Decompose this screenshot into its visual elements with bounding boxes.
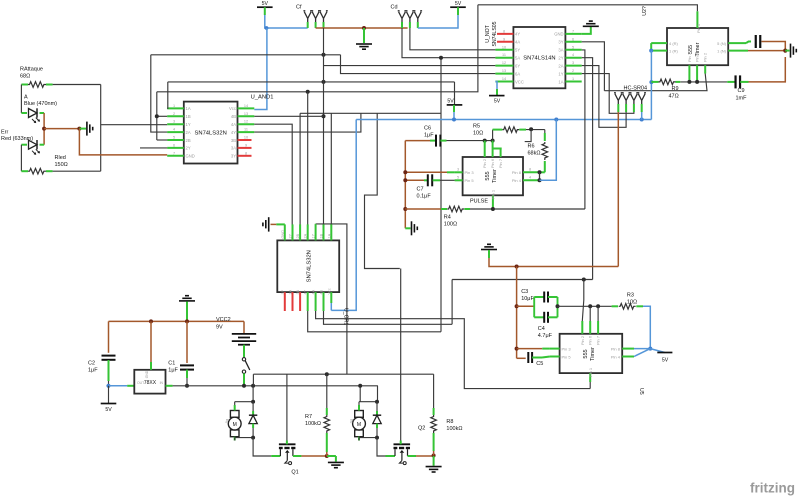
wire mesh H82 to 5V xyxy=(168,81,455,83)
wire OR p7 bottom blue xyxy=(330,303,332,310)
svg-text:68Ω: 68Ω xyxy=(20,74,30,80)
U_OR1 top pin 2Y xyxy=(292,224,294,240)
junction brown pin3 xyxy=(403,170,407,174)
SN74LS14N pin 4A xyxy=(497,41,513,43)
power +5V P5 xyxy=(657,352,672,354)
wire 4B row xyxy=(254,115,323,117)
wire motor2 net drop xyxy=(359,386,361,402)
wire Cf2 to ground rail (brown) xyxy=(316,27,408,29)
U_AND1 pin 9 3A xyxy=(238,147,252,149)
wire 1B/2B vertical xyxy=(156,92,158,140)
svg-text:C5: C5 xyxy=(536,361,543,367)
wire 5V P4 drop xyxy=(454,82,456,105)
svg-text:U_NOT: U_NOT xyxy=(485,24,491,42)
svg-text:5 (N): 5 (N) xyxy=(717,41,727,46)
wire brown to C3/C4 node xyxy=(517,305,535,307)
svg-text:2A: 2A xyxy=(558,63,563,68)
svg-text:10μF: 10μF xyxy=(521,296,534,302)
svg-text:C1: C1 xyxy=(168,361,175,367)
U2 pin1 top xyxy=(696,11,698,28)
wire 1A input xyxy=(166,82,169,109)
U_OR1 bottom pin 3Y xyxy=(284,292,286,311)
svg-text:Pin 1: Pin 1 xyxy=(588,367,593,377)
PULSE bottom pin xyxy=(492,195,494,209)
timer U2 555 xyxy=(667,28,728,65)
svg-text:4.7μF: 4.7μF xyxy=(538,333,553,339)
SN74LS14N pin 1Y xyxy=(565,73,581,75)
svg-text:Pin 2: Pin 2 xyxy=(703,52,708,62)
svg-text:555: 555 xyxy=(583,349,589,358)
svg-text:Pin 3: Pin 3 xyxy=(562,347,572,352)
svg-text:9: 9 xyxy=(503,37,505,41)
svg-text:4Y: 4Y xyxy=(231,130,236,135)
wire 5Y from Cd2 xyxy=(410,28,496,50)
svg-text:10Ω: 10Ω xyxy=(473,131,483,137)
svg-text:10Ω: 10Ω xyxy=(627,300,637,306)
svg-text:Q2: Q2 xyxy=(418,426,425,432)
svg-text:1mF: 1mF xyxy=(736,96,748,102)
svg-text:3: 3 xyxy=(572,61,574,65)
svg-text:Err: Err xyxy=(1,129,9,135)
wire 78xx IN to rail xyxy=(166,385,173,387)
svg-text:13: 13 xyxy=(502,69,506,73)
wire Rled right xyxy=(53,170,101,172)
U_AND1 pin 4 2A xyxy=(167,131,184,133)
wire to Q1 gate xyxy=(253,438,271,456)
transistor Q1 xyxy=(279,443,296,445)
power +5V P4 xyxy=(447,104,463,106)
svg-text:3Y: 3Y xyxy=(281,289,285,294)
svg-text:150Ω: 150Ω xyxy=(55,162,68,168)
junction R8 bottom xyxy=(432,454,436,458)
svg-text:1Y: 1Y xyxy=(312,233,316,238)
svg-text:13: 13 xyxy=(244,112,248,116)
wire blue down to R9/blue rail xyxy=(650,51,652,120)
wire C2 to out node xyxy=(108,363,110,381)
wire pin6 riser xyxy=(492,130,494,141)
junction blue U2 xyxy=(649,49,653,53)
U_AND1 pin 13 4B xyxy=(238,115,255,117)
U_OR1 top pin 1A xyxy=(330,224,332,240)
svg-text:6A: 6A xyxy=(515,71,520,76)
svg-text:9g: 9g xyxy=(224,419,229,423)
wire LED Err anode xyxy=(20,145,22,172)
U_OR1 top pin 1B xyxy=(323,224,325,240)
junction brown R4 xyxy=(403,207,407,211)
svg-text:2: 2 xyxy=(173,112,175,116)
svg-text:1A: 1A xyxy=(186,106,191,111)
svg-text:R7: R7 xyxy=(305,414,312,420)
junction H55/Cf3 xyxy=(322,53,326,57)
wire 3A down to R4 net xyxy=(582,50,585,209)
header Cd pin3 xyxy=(414,11,423,26)
wire 3Y to HC trigger line xyxy=(582,42,605,91)
svg-text:R6: R6 xyxy=(528,143,535,149)
svg-text:Pin 5: Pin 5 xyxy=(465,178,475,183)
junction brown C1/gnd xyxy=(185,319,189,323)
junction H374/R7 xyxy=(325,372,329,376)
svg-text:2B: 2B xyxy=(186,138,191,143)
SN74LS14N pin 5Y xyxy=(495,49,513,51)
svg-text:1Y: 1Y xyxy=(558,71,563,76)
svg-text:PULSE: PULSE xyxy=(470,198,488,204)
switch S1 xyxy=(242,358,245,361)
svg-text:2A: 2A xyxy=(304,233,308,238)
wire 4A row to OR pin2 xyxy=(254,124,292,240)
svg-text:10: 10 xyxy=(244,136,248,140)
or-chip U_OR1 SN74LS32N (rotated) xyxy=(277,240,339,292)
power +5V P2 xyxy=(450,6,466,8)
SN74LS14N pin 2A xyxy=(565,65,581,67)
wire stub from junction xyxy=(525,129,531,141)
svg-text:10: 10 xyxy=(502,45,506,49)
svg-text:GND: GND xyxy=(554,32,563,37)
wire OR p5 bottom to H324 xyxy=(324,311,453,324)
U_AND1 pin 12 4A xyxy=(238,123,255,125)
power +5V P6 (bottom) xyxy=(101,403,117,405)
wire mesh H55 xyxy=(151,54,341,56)
diode D2 flyback xyxy=(376,402,378,416)
svg-text:5V: 5V xyxy=(447,99,454,105)
svg-text:5A: 5A xyxy=(515,56,520,61)
op-chip U_AND1 SN74LS32N xyxy=(184,102,238,164)
svg-text:RAttaque: RAttaque xyxy=(20,67,43,73)
U_OR1 bottom pin 4B xyxy=(323,292,325,311)
wire OR p4 bottom to H318 xyxy=(316,311,591,389)
wire to Q2 gate xyxy=(377,438,386,456)
wire 4Y row riser xyxy=(254,113,361,132)
svg-text:Pin 6: Pin 6 xyxy=(490,158,495,168)
inverter U_NOT SN74LS14N xyxy=(513,27,565,88)
ground G3 xyxy=(583,25,599,27)
wire LED node down to GND pin wire (brown) xyxy=(79,129,167,155)
U_OR1 top pin 2A xyxy=(307,224,309,240)
svg-text:100kΩ: 100kΩ xyxy=(446,426,462,432)
wire p5-route riser to H279 xyxy=(451,280,453,325)
svg-text:C6: C6 xyxy=(424,126,431,132)
junction diode1 bottom xyxy=(251,436,255,440)
wire H91 to U2 pin2 xyxy=(604,74,707,91)
wire Cd3 to 5V P2 (blue) xyxy=(418,15,458,28)
wire pin3 row (brown) xyxy=(405,171,447,173)
SN74LS14N pin 3Y xyxy=(565,41,581,43)
wire battery to switch xyxy=(243,345,245,357)
power +5V P1 (top left) xyxy=(257,6,273,8)
svg-text:555: 555 xyxy=(688,45,694,54)
wire OR pin7 drop xyxy=(330,113,332,240)
svg-text:SN74LS32N: SN74LS32N xyxy=(195,131,227,137)
ground G5 (left of OR chip) xyxy=(268,217,270,231)
svg-text:SN74LS32N: SN74LS32N xyxy=(306,250,312,282)
svg-text:3: 3 xyxy=(457,168,459,172)
svg-text:Pin 1: Pin 1 xyxy=(491,189,496,199)
junction pin6 drop xyxy=(491,139,495,143)
wire 5A from Cd1 xyxy=(402,28,495,58)
svg-text:11: 11 xyxy=(244,128,248,132)
SN74LS14N pin 1A xyxy=(565,81,581,83)
junction C34 right xyxy=(556,304,560,308)
svg-text:5V: 5V xyxy=(262,1,269,7)
junction R7 bottom xyxy=(325,454,329,458)
ground G10 (Q2) xyxy=(433,456,435,466)
svg-text:U5: U5 xyxy=(638,388,644,395)
header Cf pin2 xyxy=(311,11,320,26)
wire 2Y to U5 area xyxy=(582,58,593,280)
U5 right pins xyxy=(622,348,634,350)
junction H279 xyxy=(582,278,586,282)
SN74LS14N pin GND xyxy=(565,33,581,35)
wire main bottom rail xyxy=(173,385,378,387)
junction diode2 bottom xyxy=(375,436,379,440)
junction pin2 drop xyxy=(483,139,487,143)
ground G9 (Q1) xyxy=(327,455,336,457)
svg-text:Cd: Cd xyxy=(391,5,398,11)
wire motor2 bottom xyxy=(358,438,360,441)
wire U2 pin right to gnd node (brown) xyxy=(748,50,785,52)
svg-text:1B: 1B xyxy=(186,114,191,119)
U5 left pins xyxy=(550,348,560,350)
svg-text:R8: R8 xyxy=(446,419,453,425)
wire Cd1 net vertical to OR p3 route xyxy=(440,58,442,332)
svg-text:1 (R): 1 (R) xyxy=(669,49,679,54)
U_OR1 bottom pin 3A xyxy=(292,292,294,311)
svg-text:2Y: 2Y xyxy=(289,233,293,238)
junction blue HC pin4 xyxy=(640,118,644,122)
junction diode2 top xyxy=(375,400,379,404)
svg-text:Pin 7: Pin 7 xyxy=(498,158,503,168)
svg-text:2Y: 2Y xyxy=(558,56,563,61)
svg-text:GND: GND xyxy=(281,230,285,239)
wire OR pin4 drop xyxy=(307,92,309,241)
svg-text:5V: 5V xyxy=(662,358,669,364)
svg-text:4B: 4B xyxy=(231,114,236,119)
wire R4 to pin1 and 3A riser xyxy=(470,208,585,210)
svg-text:6: 6 xyxy=(572,37,574,41)
wire C6 to pin2/6 xyxy=(447,140,493,142)
wire rail corner to diode2 xyxy=(377,386,379,402)
svg-text:8: 8 xyxy=(529,168,531,172)
header HC-SR04 pin 4 xyxy=(637,93,646,108)
wire to 1Y pin xyxy=(101,124,168,126)
junction brown U5 xyxy=(515,265,519,269)
svg-text:Pin 2: Pin 2 xyxy=(580,335,585,345)
wire switch to rail xyxy=(243,373,245,385)
U5 bottom pin xyxy=(589,373,591,382)
regulator 78XX xyxy=(134,370,165,394)
header HC-SR04 pin 3 xyxy=(630,93,639,108)
wire pin7 riser xyxy=(597,306,599,321)
svg-text:1A: 1A xyxy=(327,233,331,238)
svg-text:U_OR1: U_OR1 xyxy=(343,308,349,325)
svg-text:5Y: 5Y xyxy=(515,48,520,53)
junction R5/R6 xyxy=(529,127,533,131)
U_OR1 top pin 2B xyxy=(299,224,301,240)
U_AND1 pin 8 3Y xyxy=(238,155,252,157)
svg-text:Pin 3: Pin 3 xyxy=(465,170,475,175)
svg-text:C9: C9 xyxy=(738,88,745,94)
wire blue pin4 diag xyxy=(634,349,650,357)
wire Q1 source (orange) xyxy=(293,455,302,457)
svg-text:Pin 6: Pin 6 xyxy=(588,335,593,345)
svg-text:HC-SR04: HC-SR04 xyxy=(624,85,648,91)
svg-text:U_AND1: U_AND1 xyxy=(251,95,274,101)
svg-text:Rled: Rled xyxy=(55,155,66,161)
wire Cf3 down to OR chip xyxy=(323,28,325,240)
wire mesh H113 xyxy=(300,112,441,114)
svg-text:6Y: 6Y xyxy=(515,63,520,68)
svg-text:Pin 8: Pin 8 xyxy=(512,170,522,175)
junction R9 blue xyxy=(649,80,653,84)
wire C9 to gnd node (brown) xyxy=(749,57,786,82)
U_AND1 pin 14 Vcc xyxy=(238,107,255,109)
U_AND1 pin 3 1Y xyxy=(167,123,184,125)
svg-text:5: 5 xyxy=(457,176,459,180)
junction at ground branch xyxy=(77,127,81,131)
junction Cf3/4B xyxy=(322,114,326,118)
SN74LS14N pin 4Y xyxy=(497,33,513,35)
svg-text:14: 14 xyxy=(244,104,248,108)
U_AND1 pin 2 1B xyxy=(167,115,184,117)
ground G4 (right edge) xyxy=(785,50,789,52)
wire U5 drive H279 xyxy=(452,279,592,281)
header Cd pin1 xyxy=(398,11,407,26)
svg-text:100kΩ: 100kΩ xyxy=(305,421,321,427)
svg-text:Pin 8: Pin 8 xyxy=(611,347,621,352)
wire blue into pin4 xyxy=(540,120,557,181)
svg-text:SN74LS14N: SN74LS14N xyxy=(523,56,555,62)
junction LED node xyxy=(42,127,46,131)
wire U2 pin1 long xyxy=(478,5,698,12)
svg-text:M: M xyxy=(357,422,361,428)
svg-text:0.1μF: 0.1μF xyxy=(417,193,432,199)
junction switch xyxy=(242,384,246,388)
wire U5 pin1 xyxy=(589,382,591,389)
wire blue to 5V xyxy=(650,349,665,353)
capacitor C8 (top right) xyxy=(746,42,751,44)
svg-text:3A: 3A xyxy=(558,48,563,53)
svg-text:4: 4 xyxy=(529,176,531,180)
junction motor2 net xyxy=(358,384,362,388)
wire H374 left drop xyxy=(252,374,254,386)
svg-text:R4: R4 xyxy=(444,215,451,221)
wire corner to 6A row xyxy=(341,55,496,74)
svg-text:3Y: 3Y xyxy=(558,40,563,45)
wire HC pin4 to blue rail xyxy=(641,112,643,120)
svg-text:Pin 7: Pin 7 xyxy=(687,52,692,62)
junction blue R6 node xyxy=(554,118,558,122)
wire Q2-drive riser jog xyxy=(365,113,400,268)
junction brown pin5 xyxy=(403,178,407,182)
svg-text:Timer: Timer xyxy=(492,169,498,183)
svg-text:3Y: 3Y xyxy=(231,154,236,159)
motor M2 xyxy=(355,411,364,418)
svg-text:Vcc: Vcc xyxy=(229,106,236,111)
svg-text:C7: C7 xyxy=(417,186,424,192)
svg-text:1: 1 xyxy=(572,77,574,81)
svg-text:2A: 2A xyxy=(186,130,191,135)
svg-text:4Y: 4Y xyxy=(304,289,308,294)
svg-text:555: 555 xyxy=(485,171,491,180)
junction 1B xyxy=(155,114,159,118)
SN74LS14N pin 3A xyxy=(565,49,581,51)
svg-text:7: 7 xyxy=(173,151,175,155)
svg-text:Pin 5: Pin 5 xyxy=(562,354,572,359)
wire blue to 78xx OUT xyxy=(109,385,128,387)
svg-text:8: 8 xyxy=(503,29,505,33)
junction C1 out xyxy=(185,384,189,388)
svg-text:7: 7 xyxy=(572,29,574,33)
U_AND1 pin 10 3B xyxy=(238,139,252,141)
wire motor net drop xyxy=(252,386,254,402)
junction pin8 xyxy=(538,170,542,174)
wire OR p5top to R7/R8 feed xyxy=(316,224,347,374)
wire gate feed H374 xyxy=(253,373,433,375)
U5 top pins xyxy=(581,321,583,334)
ground G2 (LED node) xyxy=(79,128,86,130)
transistor Q2 xyxy=(394,443,411,445)
svg-text:Vcc: Vcc xyxy=(327,288,331,294)
junction brown 78xx xyxy=(149,319,153,323)
header Cf pin3 xyxy=(319,11,328,26)
svg-text:12: 12 xyxy=(502,61,506,65)
wire ground to brown rail xyxy=(489,258,618,267)
svg-text:GND: GND xyxy=(145,370,149,378)
wire OR p3 bottom to H332 xyxy=(308,311,441,332)
header Cf pin1 xyxy=(303,11,312,26)
svg-text:Pin 1: Pin 1 xyxy=(696,23,701,33)
svg-text:5V: 5V xyxy=(105,407,112,413)
svg-text:5V: 5V xyxy=(494,99,501,105)
U_OR1 bottom pin Vcc xyxy=(330,292,332,303)
blue rail to PULSE area xyxy=(356,119,651,121)
wire R3 blue to pin8 xyxy=(634,306,650,348)
wire R68 left to LED A anode xyxy=(20,85,22,114)
svg-text:Pin 4: Pin 4 xyxy=(611,354,621,359)
svg-text:1μF: 1μF xyxy=(424,133,434,139)
svg-text:5: 5 xyxy=(572,45,574,49)
wire HC pin1 down (brown) xyxy=(617,112,619,267)
timer PULSE 555 xyxy=(463,157,523,195)
wire mesh H92 xyxy=(157,5,478,92)
svg-text:Pin 4: Pin 4 xyxy=(512,178,522,183)
junction blue pin8 xyxy=(648,347,652,351)
wire Q2 drain riser xyxy=(400,269,402,441)
U_AND1 pin 11 4Y xyxy=(238,131,255,133)
svg-text:Q1: Q1 xyxy=(291,470,298,476)
junction pin1 PULSE xyxy=(491,207,495,211)
wire VCC to 5V (blue) xyxy=(495,82,497,90)
header HC-SR04 pin 2 xyxy=(622,93,631,108)
SN74LS14N pin 5A xyxy=(495,57,513,59)
svg-text:2: 2 xyxy=(572,69,574,73)
junction brown pin3 xyxy=(515,347,519,351)
U_OR1 top pin GND xyxy=(284,224,286,240)
U_AND1 pin 7 GND xyxy=(167,155,184,157)
svg-text:Blue (470nm): Blue (470nm) xyxy=(24,101,57,107)
svg-text:C3: C3 xyxy=(521,289,528,295)
junction H82/Cf3 xyxy=(322,80,326,84)
svg-text:3B: 3B xyxy=(296,289,300,294)
svg-text:R9: R9 xyxy=(672,86,679,92)
wire brown supply rail xyxy=(109,320,245,322)
junction U2 pin6 xyxy=(695,80,699,84)
svg-text:VCC: VCC xyxy=(515,79,524,84)
svg-text:9: 9 xyxy=(245,143,247,147)
junction gnd node (brown) xyxy=(783,49,787,53)
PULSE left pins xyxy=(455,171,463,173)
svg-text:5: 5 xyxy=(173,136,175,140)
svg-text:3: 3 xyxy=(173,120,175,124)
